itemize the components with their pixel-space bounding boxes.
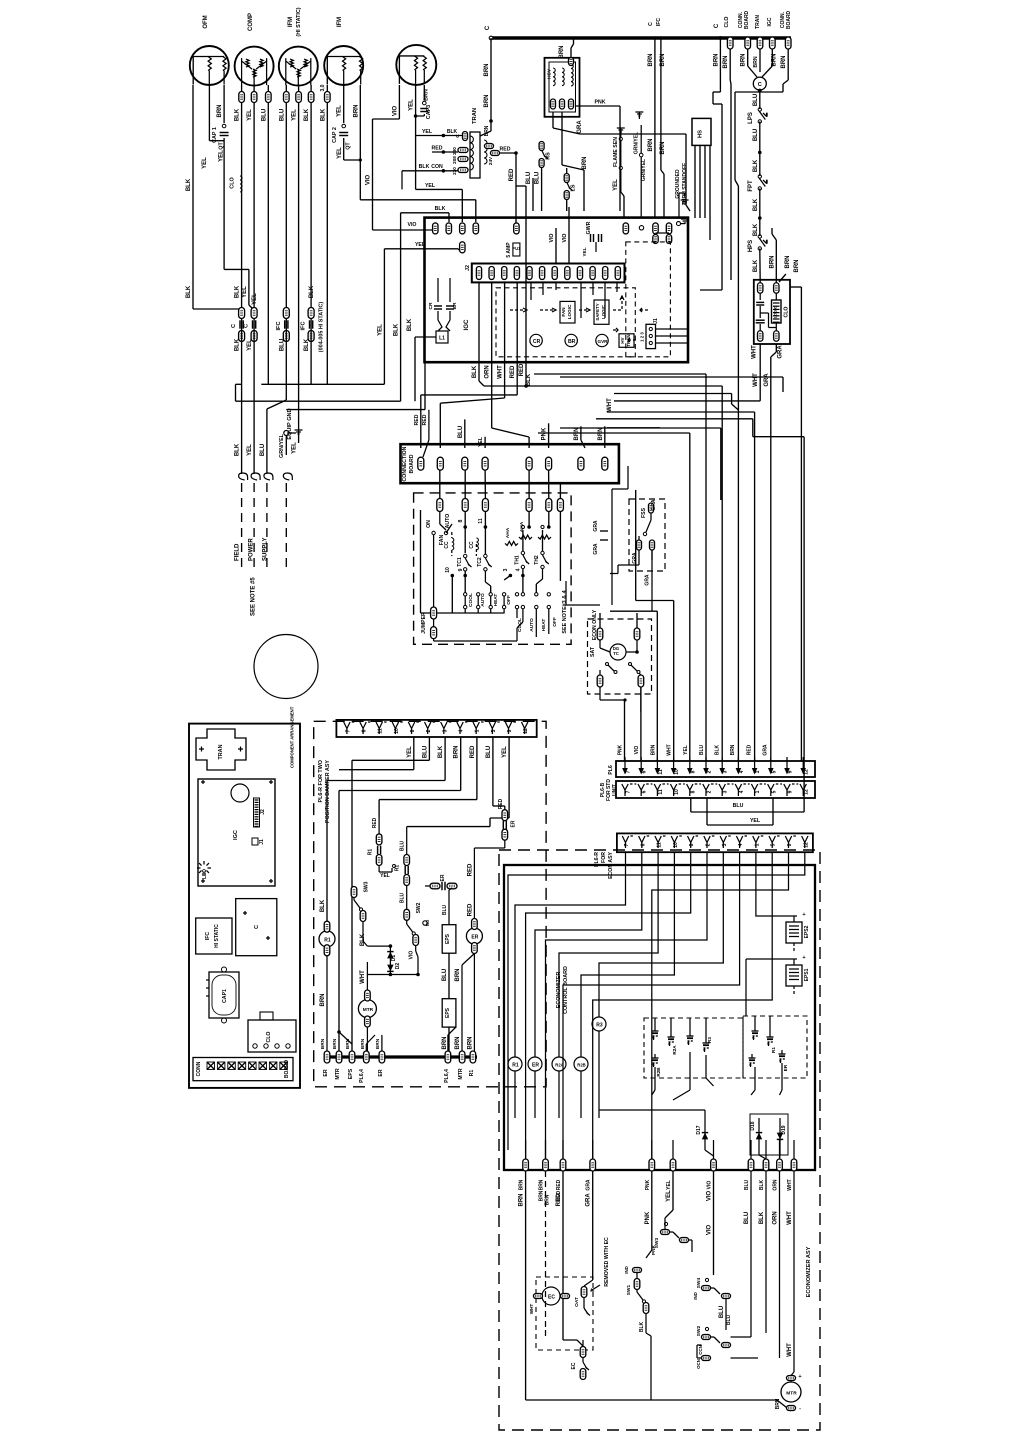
ECON ONLY switches [606,663,609,666]
IGC board J1 [252,838,258,845]
svg-text:10: 10 [674,789,680,795]
tstat terminal W1 [526,499,532,512]
svg-text:LS: LS [571,184,577,191]
IGC board plus marks [201,781,205,783]
svg-text:7: 7 [626,790,632,793]
wire d5 BLU [492,737,494,806]
econ wiring mesh 12 [508,865,805,1150]
wire BRN HPS to CLO [759,249,761,284]
contactor IFC contact 21/11 [283,308,289,319]
tstat terminal Y2 [482,499,488,512]
damper SM2 switch [404,909,410,920]
wire IFC11 BLU jog [285,319,287,401]
switch TH2 [541,551,544,554]
PL6-R econ fork 6 [639,836,645,843]
J2 pin 12 [615,267,620,280]
svg-text:BLU: BLU [442,969,448,981]
svg-text:YEL: YEL [337,105,343,117]
IGC board [198,779,275,886]
svg-text:BRN: BRN [455,969,461,982]
damper bus terminal 366.3 [364,1051,370,1063]
J2 pin 9 [577,267,582,280]
wire OFM YEL [208,85,210,141]
wire L1 BLK out [415,336,436,338]
damper D1 D2 diodes [389,944,393,948]
svg-text:IGC: IGC [463,319,470,331]
svg-text:YEL: YEL [582,247,588,256]
diode D18 [758,1118,760,1155]
relay CR [530,334,542,346]
field lead dashed BLK [241,483,243,573]
damper bus terminal EPS [349,1051,355,1063]
svg-text:12: 12 [803,842,809,848]
damper BLU mid chain [406,827,408,855]
connector IFMH 3 [284,92,290,103]
field connector GRN/YEL [283,473,292,480]
CONN BOARD sq 2 [228,1062,236,1070]
PL6-R econ fork 1 [753,836,759,843]
svg-text:COMPONENT ARRANGEMENT: COMPONENT ARRANGEMENT [290,706,295,768]
econ wiring mesh 9 [756,865,791,916]
PL6-R fork 8 [408,722,414,729]
svg-text:2: 2 [706,843,712,846]
damper bus terminal MTR [459,1051,465,1063]
wire BRN drop 720 [719,38,721,92]
damper bus terminal R1 [470,1051,476,1063]
svg-text:BRN: BRN [775,1398,781,1409]
svg-text:GRA: GRA [593,520,599,532]
wire BLK long [765,1171,767,1310]
wire CAP2 YEL down [343,138,345,160]
wire d1 RED [476,737,478,800]
wire WHT long [793,1171,795,1372]
svg-text:D18: D18 [750,1121,756,1130]
PL6-R econ fork 4 [736,836,742,843]
svg-text:BLK: BLK [759,1179,765,1190]
PL6-R fork 5 [489,722,495,729]
svg-text:GRN/YEL: GRN/YEL [634,132,640,154]
IGC terminal double2 [666,223,671,234]
svg-text:BRN: BRN [582,157,588,170]
svg-text:GRA: GRA [651,499,657,511]
wire TRAN BLK left [402,170,458,172]
J2 pin 5 [527,267,532,280]
wire GRA 775 down [770,357,772,761]
svg-text:CLO: CLO [230,177,236,188]
IGC terminal double1 [653,223,658,234]
svg-text:MTR: MTR [786,1391,797,1397]
svg-text:CC: CC [444,541,450,549]
mosfet R3 b [703,1042,710,1044]
svg-text:BRN: BRN [650,744,656,755]
svg-text:BRN: BRN [484,95,490,108]
svg-text:1: 1 [755,770,761,773]
svg-text:CCN: CCN [698,1345,703,1355]
svg-text:10: 10 [445,567,451,573]
damper bus terminal 447.9 [445,1051,451,1063]
svg-text:YEL: YEL [292,442,298,454]
contactor C contact 23/13 [251,308,257,319]
PL6 pin 5 [770,757,772,771]
safety logic box [594,300,609,324]
PL6 pin 8 [689,757,691,771]
svg-text:IGC: IGC [767,17,773,26]
damper ER cap2 [430,883,440,889]
svg-text:YEL: YEL [377,324,383,336]
mosfet R3 a [687,1035,694,1037]
SW1 switch [634,1279,640,1290]
svg-text:R1: R1 [368,849,374,856]
svg-text:CC: CC [469,541,475,549]
svg-text:R1: R1 [324,937,331,943]
EPS2 component [786,922,802,943]
flame sensor [617,127,625,129]
HV TRAN box [619,334,634,348]
PL6 pin 1 [754,757,756,771]
wire BRN to C coil left [747,49,749,66]
svg-text:GRA: GRA [778,345,784,359]
svg-text:BRN: BRN [545,1194,551,1205]
wire W1 chain [510,576,529,582]
diode D19 [779,1118,781,1155]
svg-text:IFC: IFC [301,321,307,330]
svg-text:BRN: BRN [320,994,326,1007]
wire BLU to Y1 [464,419,466,448]
motor IFM [324,46,363,85]
svg-text:YEL: YEL [247,339,253,351]
svg-text:CLO: CLO [784,307,790,318]
field lead dashed GRN/YEL [285,483,287,573]
svg-text:LOGIC: LOGIC [567,304,572,319]
wire ICM BRN [423,85,425,100]
mosfet ER a [749,1057,756,1059]
svg-text:R1: R1 [771,1047,776,1053]
resistor AHA1 [505,541,518,545]
svg-text:BRN: BRN [785,256,791,269]
tstat mode row2 [464,605,467,608]
IGC terminal pill d [473,223,478,234]
svg-text:YEL: YEL [202,157,208,169]
wire d2 BLU [428,737,430,760]
wire BRN to X diag [605,440,610,448]
PL6-B fork 4 [735,784,741,790]
svg-text:BLK: BLK [304,108,310,121]
svg-text:PL6-R FOR TWO: PL6-R FOR TWO [318,760,324,803]
wire RS BLU [541,167,543,211]
svg-text:VIO: VIO [562,234,568,243]
svg-text:WHT: WHT [360,970,366,984]
svg-text:SW3: SW3 [654,1237,660,1248]
bus terminal TRAN [757,37,763,49]
wire ICM VIO [398,85,400,119]
svg-text:BLK: BLK [753,259,759,272]
svg-text:REMOVED WITH EC: REMOVED WITH EC [604,1237,610,1287]
connection board box [401,444,619,483]
damper MTR circle [358,1000,376,1018]
svg-text:(004-005 HI STATIC): (004-005 HI STATIC) [318,302,324,353]
econ wiring mesh 10 [593,865,773,1159]
svg-text:ECONOMIZER ASY: ECONOMIZER ASY [806,1246,812,1297]
svg-text:FIELD: FIELD [235,543,241,561]
PL6-B fork 2 [703,784,709,790]
wire d9 YEL [508,737,510,818]
svg-text:FAN: FAN [561,307,566,317]
svg-text:7: 7 [624,843,630,846]
jumper pills [431,607,437,619]
svg-text:RED: RED [746,744,752,755]
wire 641 down [640,686,642,761]
svg-text:YEL: YEL [292,109,298,121]
svg-text:BLK: BLK [186,178,192,191]
svg-text:BLU: BLU [753,129,759,141]
svg-text:11: 11 [478,518,484,524]
wire BLU to LPS [759,91,761,110]
svg-text:BOARD: BOARD [786,10,792,29]
svg-text:10: 10 [673,842,679,848]
PL6-R econ fork 11 [655,836,661,843]
J2 pin 3 [502,267,507,280]
wire BRN bus to TRAN [490,38,492,131]
J2 pin 2 [489,267,494,280]
svg-text:BLK: BLK [753,159,759,172]
wire RED right col [504,840,506,848]
econ wiring mesh 3 [559,865,658,1040]
svg-text:FPT: FPT [748,180,754,192]
svg-text:BRN: BRN [467,1037,473,1050]
wire H412 [607,411,755,413]
wire H377 [560,376,783,378]
svg-text:10: 10 [394,728,400,734]
damper SM3 switch [351,887,357,898]
svg-text:3: 3 [723,790,729,793]
wire H433 [538,432,690,434]
svg-text:BRN: BRN [332,1038,338,1049]
svg-text:YEL: YEL [247,444,253,456]
wire 625 down [624,700,626,761]
svg-text:TC1: TC1 [457,557,463,567]
wire BRN drop 760 TRAN [759,49,761,72]
svg-text:7: 7 [626,770,632,773]
wire RED branch [516,185,526,187]
ECON ONLY parts [597,628,603,640]
svg-text:11: 11 [658,789,664,795]
svg-text:BRN: BRN [713,54,719,67]
svg-text:1: 1 [475,729,481,732]
coil CC 1 [452,538,454,550]
relay CLO box [754,280,790,344]
svg-text:GRA: GRA [764,373,770,387]
svg-text:AHA: AHA [505,527,511,538]
IGC terminal ES5 [623,223,628,234]
connector IFMH 1 [308,92,314,103]
PL6 pin 12 [802,757,804,771]
svg-text:FOR: FOR [601,852,607,863]
field lead dashed YEL [253,483,255,573]
capacitor BR internal [446,305,454,307]
wire H401 WHT label [614,400,760,402]
svg-text:R1: R1 [512,1063,519,1069]
wire GRN/YEL run [286,409,425,411]
svg-text:VIO: VIO [707,1191,713,1202]
CONN BOARD sq 1 [217,1062,225,1070]
connection board terminal W2 [546,457,552,470]
svg-text:RED: RED [509,168,515,181]
EPS1 feed [746,958,791,960]
svg-text:RED: RED [467,903,473,916]
PL6-B fork 11 [654,784,660,790]
connector IFMH 2 [296,92,302,103]
HS wires down [694,145,696,218]
PL6-R econ fork 3 [720,836,726,843]
wire IFMH BLK [310,85,312,92]
svg-text:THRU STANDOFF: THRU STANDOFF [682,163,688,205]
svg-text:7: 7 [345,729,351,732]
svg-text:AUTO: AUTO [445,514,451,529]
svg-text:CON: CON [431,164,443,170]
svg-text:GWR: GWR [586,221,592,234]
econ wiring mesh 11 [652,865,789,1159]
J2 pin 8 [565,267,570,280]
connector COMP 11 [239,92,245,103]
svg-text:BLU: BLU [261,109,267,121]
svg-text:TH1: TH1 [515,555,521,565]
PL6 strip box [616,761,815,777]
wire d8 YEL [413,737,415,770]
wire J2 BLK down [478,282,480,381]
svg-text:TRAN: TRAN [218,744,224,759]
field connector BLU [264,473,273,480]
sensor HS box [692,118,711,145]
svg-text:BLU: BLU [535,172,541,184]
svg-text:1 2 3: 1 2 3 [640,332,645,342]
wire IFM BRN [359,85,361,200]
svg-text:BLK: BLK [438,745,444,758]
svg-text:BLK: BLK [235,338,241,351]
svg-text:PL6: PL6 [608,765,614,775]
svg-text:COMP: COMP [248,13,254,31]
econ circles R1 ER R2A R2B [508,1057,522,1071]
wire inside IGC verticals [530,282,532,300]
IGC terminal pill b [446,223,451,234]
svg-text:BLK: BLK [639,1321,645,1332]
wire PNK SW1 [651,1171,653,1240]
damper R1 circle [319,931,335,947]
PL6 pin 7 [624,757,626,771]
IGC board circle [231,784,249,802]
svg-text:5: 5 [771,843,777,846]
svg-text:2: 2 [707,770,713,773]
svg-text:POWER: POWER [249,538,255,561]
connection board terminal Y2 [482,457,488,470]
svg-text:VIO: VIO [392,106,398,117]
svg-text:OFF: OFF [552,617,558,627]
pressure switch FPT [758,175,761,178]
PL6-R econ fork 10 [671,836,677,843]
svg-text:RED: RED [498,798,504,809]
svg-text:POSITION DAMPER ASY: POSITION DAMPER ASY [325,760,331,823]
svg-text:EC: EC [571,1362,577,1369]
svg-text:RS: RS [546,152,552,160]
svg-text:SEE NOTE#3 & 4: SEE NOTE#3 & 4 [562,590,568,633]
IGC dashed logic area [496,288,635,357]
IGC small circle [639,226,643,230]
wire VIO pair [555,228,557,263]
svg-text:ORN: ORN [773,1179,779,1191]
svg-text:SEE NOTE #5: SEE NOTE #5 [251,577,257,616]
svg-text:BRN: BRN [423,89,429,101]
svg-text:3: 3 [442,729,448,732]
IGC dashed right area [626,242,671,357]
overload CLO coil [240,176,242,192]
svg-text:YEL: YEL [409,99,415,111]
svg-text:EPS: EPS [445,1007,451,1018]
svg-text:BLU: BLU [733,803,744,809]
pressure switch LPS [758,108,761,111]
svg-text:RED: RED [467,863,473,876]
tstat wiring verticals [464,571,466,593]
wire C13 YEL down [253,319,255,475]
svg-text:TRAN: TRAN [755,15,761,29]
wire IFMH BLU [285,85,287,92]
svg-text:IGC: IGC [233,830,239,840]
junction 8 [463,525,467,529]
wire GRA down [592,1171,594,1280]
svg-text:8: 8 [689,843,695,846]
PL6-R fork 4 [457,722,463,729]
svg-text:GRA: GRA [645,574,651,586]
ECON top wires [566,581,600,605]
svg-text:BRN: BRN [519,1179,525,1190]
ECON ONLY dashed box [588,619,652,694]
svg-text:UNIT: UNIT [612,784,618,796]
PL6-B fork 8 [687,784,693,790]
svg-text:YEL: YEL [750,818,761,824]
wire PNK to W2 [548,423,550,448]
svg-text:9: 9 [458,568,464,571]
svg-text:MTR: MTR [363,1007,374,1013]
svg-text:BLK: BLK [360,933,366,946]
PL6-R damper strip [336,720,536,737]
svg-text:TRAN: TRAN [626,334,631,346]
wire CLO WHT down [759,344,761,352]
wire H419 [596,418,753,420]
svg-text:TRAN: TRAN [472,108,478,124]
J2 pin 1 [476,267,481,280]
svg-text:YEL: YEL [242,286,248,298]
damper ER circle [466,928,482,944]
PL6-R econ fork 12 [802,836,808,843]
svg-text:11: 11 [378,728,384,734]
svg-text:9: 9 [507,729,513,732]
PL6 pin 9 [786,757,788,771]
PL6-B fork 7 [622,784,628,790]
svg-text:208: 208 [452,156,457,164]
switch TH1 [521,551,524,554]
svg-text:LPS: LPS [748,112,754,124]
econ wiring mesh 4 [581,865,674,1040]
svg-text:FLAME SEN: FLAME SEN [613,137,619,167]
svg-text:8: 8 [690,790,696,793]
svg-text:BRN: BRN [353,105,359,118]
svg-text:BRN: BRN [771,54,777,67]
capacitor CAP 2 [342,124,346,128]
svg-text:VIO: VIO [408,222,417,228]
svg-text:5: 5 [491,729,497,732]
wire 658 down [610,610,657,612]
svg-text:BLK: BLK [753,223,759,236]
capacitor CAP3 [423,101,427,105]
svg-text:BRN: BRN [519,1194,525,1207]
